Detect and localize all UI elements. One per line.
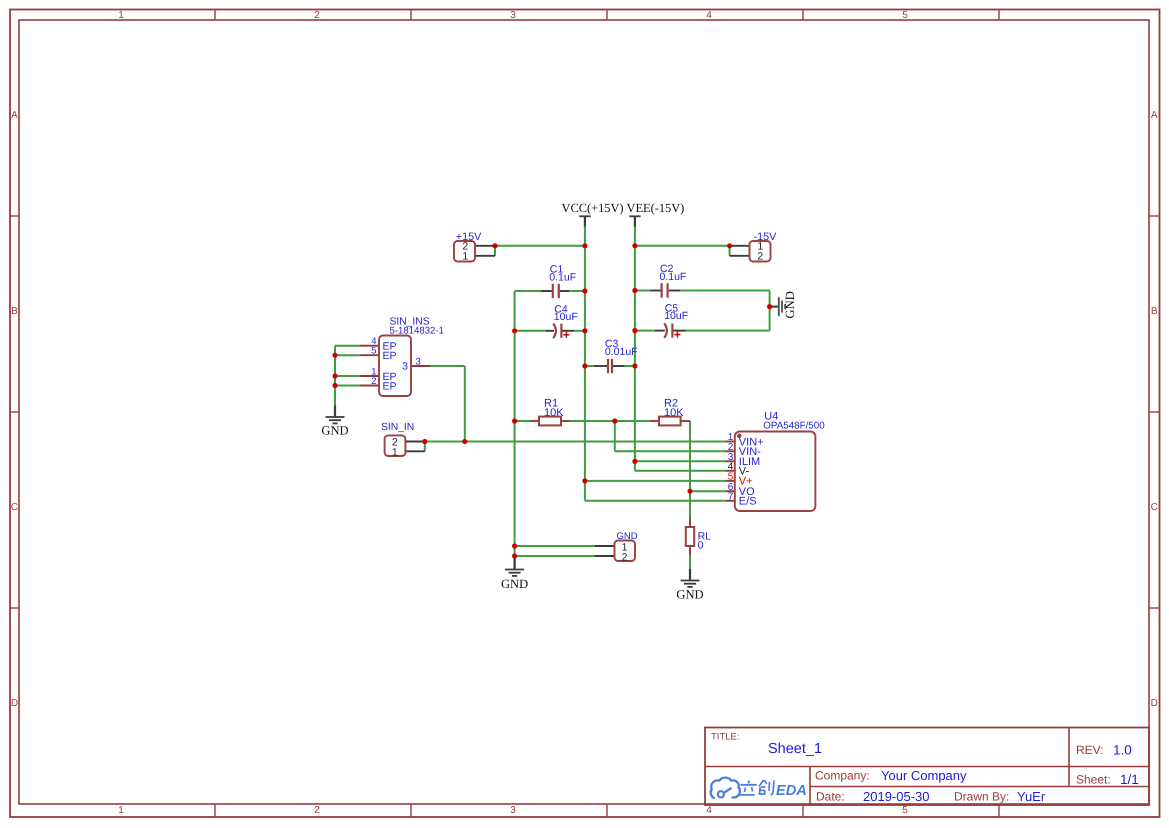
svg-text:GND: GND <box>321 424 348 438</box>
svg-text:5-1814832-1: 5-1814832-1 <box>390 326 444 337</box>
svg-text:E/S: E/S <box>739 496 757 508</box>
svg-text:EDA: EDA <box>776 783 807 799</box>
svg-text:Your Company: Your Company <box>881 768 967 783</box>
svg-text:10uF: 10uF <box>664 310 688 322</box>
svg-text:GND: GND <box>783 291 797 318</box>
svg-text:0: 0 <box>698 540 704 552</box>
svg-text:2: 2 <box>757 251 763 263</box>
svg-text:YuEr: YuEr <box>1017 789 1046 804</box>
svg-text:D: D <box>1151 698 1158 709</box>
svg-text:B: B <box>1151 306 1158 317</box>
svg-text:2019-05-30: 2019-05-30 <box>863 789 930 804</box>
svg-text:1: 1 <box>392 446 398 458</box>
svg-text:C: C <box>11 502 18 513</box>
svg-text:GND: GND <box>676 587 703 601</box>
svg-text:10K: 10K <box>664 407 684 419</box>
svg-text:7: 7 <box>728 491 734 502</box>
svg-text:EP: EP <box>383 350 397 362</box>
svg-text:TITLE:: TITLE: <box>711 732 740 743</box>
svg-text:Date:: Date: <box>816 790 845 804</box>
svg-text:1: 1 <box>118 805 124 816</box>
svg-text:D: D <box>11 698 18 709</box>
svg-text:0.1uF: 0.1uF <box>660 271 687 283</box>
svg-text:A: A <box>1151 110 1158 121</box>
svg-text:1: 1 <box>118 10 124 21</box>
svg-text:4: 4 <box>706 805 712 816</box>
svg-text:C: C <box>1151 502 1158 513</box>
svg-text:3: 3 <box>510 10 516 21</box>
svg-text:A: A <box>11 110 18 121</box>
svg-text:0.1uF: 0.1uF <box>549 271 576 283</box>
svg-text:3: 3 <box>416 356 421 367</box>
svg-text:10uF: 10uF <box>554 311 578 323</box>
svg-text:2: 2 <box>371 376 376 387</box>
svg-text:+15V: +15V <box>456 231 482 243</box>
svg-text:3: 3 <box>402 361 408 373</box>
svg-text:4: 4 <box>706 10 712 21</box>
svg-text:EP: EP <box>383 380 397 392</box>
svg-text:2: 2 <box>622 551 628 563</box>
svg-text:B: B <box>11 306 18 317</box>
svg-text:Drawn By:: Drawn By: <box>954 790 1009 804</box>
svg-text:1/1: 1/1 <box>1120 772 1139 787</box>
svg-text:2: 2 <box>314 10 320 21</box>
svg-text:SIN_IN: SIN_IN <box>381 422 414 433</box>
svg-text:GND: GND <box>501 577 528 591</box>
svg-text:5: 5 <box>902 10 908 21</box>
svg-text:GND: GND <box>617 531 638 542</box>
svg-text:0.01uF: 0.01uF <box>605 346 638 358</box>
svg-text:5: 5 <box>371 346 376 357</box>
svg-text:1.0: 1.0 <box>1113 743 1132 758</box>
svg-text:10K: 10K <box>544 407 564 419</box>
svg-text:Sheet:: Sheet: <box>1076 773 1111 787</box>
svg-text:VEE(-15V): VEE(-15V) <box>627 201 685 215</box>
svg-text:Company:: Company: <box>815 769 870 783</box>
svg-text:Sheet_1: Sheet_1 <box>768 741 822 757</box>
svg-text:1: 1 <box>462 251 468 263</box>
svg-text:3: 3 <box>510 805 516 816</box>
svg-text:OPA548F/500: OPA548F/500 <box>763 421 825 432</box>
svg-text:2: 2 <box>314 805 320 816</box>
svg-text:VCC(+15V): VCC(+15V) <box>562 201 624 215</box>
svg-text:5: 5 <box>902 805 908 816</box>
svg-text:REV:: REV: <box>1076 743 1104 757</box>
